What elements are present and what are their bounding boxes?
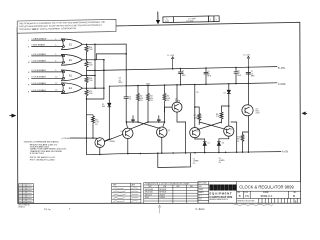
svg-text:1.5K: 1.5K [89,65,94,67]
svg-text:13: 13 [55,90,57,92]
svg-text:MFD: MFD [119,82,124,84]
wire input 2 B/W BREAK [32,46,63,48]
diode D2 [195,138,210,153]
wire Q3 emitter [161,137,163,153]
gate E4 (OR) [62,83,83,94]
svg-text:CLOCK & REGULATOR 9899: CLOCK & REGULATOR 9899 [239,185,294,190]
svg-text:0 CH 1 BRAKE: 0 CH 1 BRAKE [31,89,46,92]
notes box (proprietary notice) [17,19,116,33]
resistor R2 chain [137,86,144,122]
svg-text:PIN 7 ON EACH IC=GND: PIN 7 ON EACH IC=GND [30,159,55,162]
svg-text:5%: 5% [95,124,98,126]
svg-text:MPS6534: MPS6534 [160,192,167,194]
svg-text:1.5K: 1.5K [89,80,94,82]
svg-text:CORPORATION: CORPORATION [209,195,232,199]
svg-text:0 CH 8 BRAKE: 0 CH 8 BRAKE [31,76,46,79]
svg-text:1.5K: 1.5K [89,49,94,51]
svg-text:PRINTED CIRCUIT REV.: PRINTED CIRCUIT REV. [237,201,255,203]
svg-text:Q5: Q5 [230,129,232,131]
svg-text:C GND: C GND [278,84,286,86]
svg-text:N: N [28,72,30,74]
svg-text:K: K [28,47,30,49]
svg-text:DEC FORM NO: DEC FORM NO [19,204,31,206]
top strip: down arrow [156,11,219,24]
resistor R7 (above Q4) [194,107,201,125]
svg-text:PIN 14 ON EACH IC=+5V: PIN 14 ON EACH IC=+5V [30,156,56,159]
digital logo [209,185,236,202]
capacitor C7 on column [246,71,255,77]
wire input 3 CH 1 BREAK [32,55,63,57]
wire +15V column through Q7 [247,67,249,153]
wire Q6 collector from rail B [176,85,178,102]
wire Q6 emitter down [177,112,186,122]
gate E1 (OR) [62,39,83,50]
capacitor C4 (decoupling) [178,69,186,85]
svg-text:9899-0-1: 9899-0-1 [261,194,273,198]
svg-text:3009B: 3009B [109,141,115,143]
svg-text:D4: D4 [224,92,226,94]
capacitor C3 label below rail [219,158,226,164]
transistor Q6 (upper mid-right) [165,85,186,122]
svg-text:E IS DEC7001: E IS DEC7001 [30,153,45,155]
svg-text:MFD: MFD [237,75,241,77]
svg-text:B: B [293,194,295,198]
resistor R18 [85,75,88,84]
svg-text:B: B [239,194,241,198]
wire E1 output extension [87,43,127,45]
wire multivibrator frame left [185,122,187,153]
svg-text:10: 10 [55,76,57,78]
svg-text:1 CH 1 BRAKE: 1 CH 1 BRAKE [31,53,46,56]
pencil note center [195,207,205,211]
gate E3 (OR) [62,70,83,81]
diode D4 on Q5 column [227,84,230,126]
svg-text:1 B/W BRAKE: 1 B/W BRAKE [31,44,45,47]
svg-text:6: 6 [55,60,56,62]
wire gate E2 output [82,59,86,61]
svg-text:J: J [28,40,29,42]
transistor Q1 [87,134,123,154]
svg-text:UNLESS OTHERWISE INDICATED:: UNLESS OTHERWISE INDICATED: [24,141,60,144]
capacitor ticks pair 1 [132,116,161,122]
svg-text:0 CH 8 BRAKE: 0 CH 8 BRAKE [31,69,46,72]
svg-text:5: 5 [55,54,56,56]
pencil scrawl under title block [234,204,273,206]
svg-text:R5: R5 [196,92,198,94]
svg-text:MFD: MFD [207,76,211,78]
svg-text:Q4: Q4 [196,131,198,133]
svg-text:.01: .01 [129,99,131,101]
svg-text:1.5K: 1.5K [89,93,94,95]
left margin registration mark [10,114,16,117]
wire col1 to Q2 [126,122,127,128]
title area [236,182,238,204]
gate E2 (OR) [62,54,83,65]
wire Q2 emitter [127,139,129,154]
svg-text:Q2: Q2 [120,131,122,133]
svg-text:OF 1: OF 1 [199,195,202,197]
svg-text:0 CH 1 BRAKE: 0 CH 1 BRAKE [31,82,46,85]
svg-text:S: S [28,92,30,94]
svg-text:D664: D664 [145,197,149,199]
R14 column (left, from gates bus to Q1) [87,99,100,138]
svg-text:664: 664 [102,106,105,108]
svg-text:2N2219: 2N2219 [160,194,166,196]
capacitor C6 (decoupling) [234,68,242,84]
number row [237,191,301,198]
svg-text:1N3606: 1N3606 [160,197,166,199]
svg-text:D2: D2 [208,143,210,145]
svg-text:FIRST USED: FIRST USED [199,183,207,185]
svg-text:12: 12 [55,83,57,85]
svg-text:5%: 5% [140,100,143,102]
svg-text:9: 9 [69,209,71,211]
svg-text:CS-9899: CS-9899 [186,21,194,23]
svg-text:MFD: MFD [182,75,186,77]
handwritten signatures [114,188,139,202]
wire input 7 CH 1 BREAK [32,84,63,86]
resistor R10 [237,132,249,152]
wire input 6 CH 8 BREAK [32,77,63,79]
svg-text:1.5K: 1.5K [194,117,198,119]
diode D1 [102,86,111,141]
svg-text:DRN: DRN [113,184,116,186]
rail A (-15V supply rail) [87,67,278,71]
wire bus vertical [86,53,88,99]
svg-text:9: 9 [55,70,56,72]
pencil note bottom-left [44,208,71,211]
capacitor C5 (decoupling) [204,68,212,84]
wire E4 output extension [87,87,104,89]
resistor R8 (above Q5) [216,106,229,123]
svg-text:3009B: 3009B [175,101,181,103]
wire E2 output extension [87,54,127,60]
svg-text:3: 3 [55,45,56,47]
wire input 1 DATA BREAK [32,39,63,41]
top strip boxes [163,17,174,23]
resistor R4 chain [163,85,171,127]
svg-text:R: R [28,85,30,87]
svg-text:D +15V: D +15V [168,55,175,57]
svg-text:5%: 5% [150,100,153,102]
svg-text:D +15V: D +15V [243,55,250,57]
wire multivibrator frame right [231,122,237,152]
svg-text:97) Apr: 97) Apr [44,208,51,211]
svg-text:MPS6534: MPS6534 [160,189,167,191]
wire vertical x=103.9 [87,60,104,99]
wire cross-coupling pair 1 [130,122,161,129]
wire gate E4 output [82,87,86,89]
svg-text:5%: 5% [237,141,240,143]
wire base row pair 1 [127,121,165,123]
resistor R3 chain [147,85,154,122]
wire gate E3 output [82,74,86,76]
svg-text:5%: 5% [167,100,170,102]
svg-text:DEC2219: DEC2219 [145,194,152,196]
capacitor loop C2 below bottom rail [158,153,200,168]
wire cross-coupling pair 2 [197,122,226,130]
svg-text:DIST: DIST [199,199,202,201]
svg-text:2: 2 [55,38,56,40]
svg-text:SHEET 1: SHEET 1 [199,192,205,194]
wire Q1 emitter [87,138,117,155]
pencil arrow under chart [158,205,161,213]
resistor R19 [85,88,88,97]
wire vertical x=95 [94,44,96,88]
+15V A2 net [62,137,99,140]
transistor Q5 [224,126,234,136]
svg-text:5%: 5% [219,162,222,164]
wire Q4 collector column [194,85,196,128]
svg-text:B -15V: B -15V [278,68,285,70]
svg-text:1 DATA BRAKE: 1 DATA BRAKE [31,37,46,40]
bottom rail [116,152,281,154]
border frame [17,22,300,203]
rail B (GND rail) [109,83,277,86]
svg-text:Q3: Q3 [168,130,170,132]
svg-text:2219: 2219 [256,113,260,115]
svg-text:M: M [28,62,30,64]
capacitor C8 column [119,44,132,122]
diode D3 [217,136,229,152]
svg-text:1 CH 1 BRAKE: 1 CH 1 BRAKE [31,59,46,62]
resistor R16 [85,44,88,53]
transistor Q2 [120,128,133,138]
transistor Q4 [190,128,200,138]
+15V stub 1 [168,55,175,69]
wire input 8 CH 1 BREAK [32,91,63,93]
svg-text:MFD: MFD [251,76,255,78]
wire E3 output extension [87,74,96,76]
svg-text:5%: 5% [193,163,196,165]
svg-text:L: L [28,56,29,58]
svg-text:A +5V: A +5V [282,151,289,154]
transistor Q7 [242,105,260,116]
first-used-on column [198,182,209,204]
svg-text:P: P [28,78,30,80]
wire input 5 CH 8 BREAK [32,71,63,73]
svg-text:CS: CS [245,194,249,198]
transistor Q3 [157,127,170,137]
resistor R17 [85,60,88,69]
+15V stub 2 [243,55,250,68]
wire gate E1 output [82,43,86,45]
svg-text:DEC3009B: DEC3009B [145,189,153,191]
node dots rails [86,66,250,155]
wire Q6 base stub [165,107,173,112]
svg-text:(+15V A2): (+15V A2) [62,137,71,140]
node dots on bus [86,44,88,100]
svg-text:D3: D3 [222,143,224,145]
svg-text:DEC6534D: DEC6534D [145,192,154,194]
svg-text:3- Kum: 3- Kum [195,207,205,211]
wire below D1 to Q1 [104,107,109,142]
svg-text:DF32: DF32 [199,186,203,188]
right margin registration mark [302,112,307,115]
wire input 4 CH 1 BREAK [32,61,63,63]
svg-text:1.5K: 1.5K [216,116,220,118]
